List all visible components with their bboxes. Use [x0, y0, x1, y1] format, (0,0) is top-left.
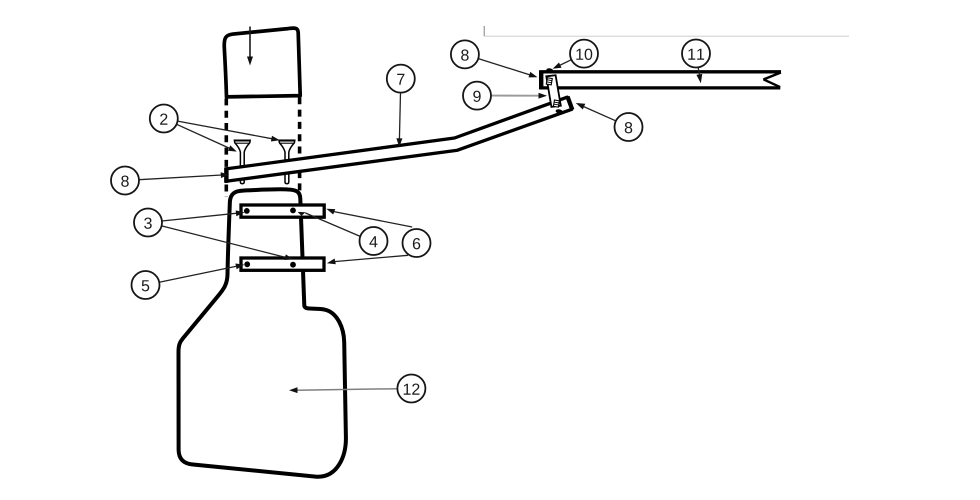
arrowhead 10 to bracket screw — [553, 63, 562, 69]
bracket screw upper (part 10) — [546, 78, 552, 85]
fastener pin left (part 2) — [234, 140, 250, 183]
arrowhead 8 to rail left end — [529, 72, 538, 78]
arrowhead 4 — [298, 212, 306, 216]
leader line 9 to bracket — [491, 95, 540, 97]
leader line 8 to arm right end — [583, 106, 616, 121]
callout circle 7 — [387, 65, 415, 93]
arrowhead 11 to rail — [696, 74, 702, 83]
callout circle 9 — [463, 82, 491, 110]
gray guide horizontal line — [485, 35, 849, 37]
dashed hidden line left — [225, 98, 229, 197]
support arm left end cap — [224, 167, 228, 182]
arrowhead 5 to lower clamp bar — [235, 264, 244, 270]
arrowhead 8 to arm left end — [221, 172, 230, 178]
callout circle 12 — [397, 375, 425, 403]
arrowhead 3 to lower clamp bar — [284, 254, 293, 260]
bracket pivot dot bottom — [555, 109, 563, 114]
upper clamp bar rivet right — [290, 208, 296, 214]
fastener pin right (part 2) — [279, 140, 295, 183]
arrowhead 12 to container — [289, 387, 298, 393]
leader line 4 to upper clamp bar — [305, 213, 360, 237]
callout circle 8 bottom right — [615, 113, 643, 141]
callout circle 8 top right — [451, 40, 479, 68]
leader line 10 to bracket screw — [559, 60, 571, 66]
bracket screw lower — [553, 100, 559, 107]
window pane outline (top shape) — [224, 28, 300, 97]
leader line 2 to right pin — [178, 121, 273, 139]
gray guide corner tick — [483, 26, 485, 36]
arrowhead 2 to left pin — [228, 145, 237, 151]
arrowhead 6 to lower clamp bar — [327, 259, 336, 265]
support arm (part 7) — [226, 97, 572, 181]
arrowhead 3 to upper clamp bar — [236, 210, 245, 216]
callout circle 8 left — [111, 167, 139, 195]
leader line 2 to left pin — [177, 124, 230, 148]
callout circle 4 — [360, 227, 388, 255]
callout circle 3 — [134, 209, 162, 237]
lower clamp bar (parts 3/5/6) — [241, 258, 324, 270]
arrow into window pane — [249, 27, 251, 58]
leader line 11 to rail — [698, 67, 699, 76]
callout circle 11 — [682, 40, 710, 68]
callout circle 5 — [132, 271, 160, 299]
leader line 6 to lower clamp bar — [334, 255, 408, 261]
hinge bracket (part 9) — [546, 75, 561, 107]
arrowhead 7 to support arm — [396, 138, 402, 147]
leader line 5 to lower clamp bar — [159, 266, 237, 282]
leader line 12 to container — [297, 389, 398, 391]
horizontal rail (part 11) with break end — [541, 71, 781, 90]
arrowhead 9 to bracket — [539, 93, 548, 99]
arrowhead 8 to arm right end — [576, 103, 586, 110]
upper clamp bar rivet left — [244, 208, 250, 214]
callout circle 10 — [570, 40, 598, 68]
lower clamp bar rivet left — [244, 261, 250, 267]
leader line 7 to support arm — [399, 93, 400, 140]
support arm right end cap — [568, 97, 573, 110]
lower clamp bar rivet right — [290, 262, 296, 268]
leader line 3 to upper clamp bar — [162, 213, 237, 221]
dashed hidden line right — [298, 97, 302, 201]
callout circle 2 — [150, 105, 178, 133]
arrowhead 2 to right pin — [271, 136, 280, 142]
leader line 3 to lower clamp bar — [162, 226, 286, 258]
container body (part 12) — [179, 189, 346, 476]
leader line 8 to rail left end — [478, 59, 530, 75]
arrowhead 6 to upper clamp bar — [326, 209, 335, 215]
callout circle 6 — [403, 229, 431, 257]
upper clamp bar (parts 3/4/6) — [241, 205, 324, 217]
leader line 8 to arm left end — [139, 175, 222, 180]
leader line 6 to upper clamp bar — [333, 212, 412, 228]
bracket pivot dot top — [546, 68, 554, 73]
